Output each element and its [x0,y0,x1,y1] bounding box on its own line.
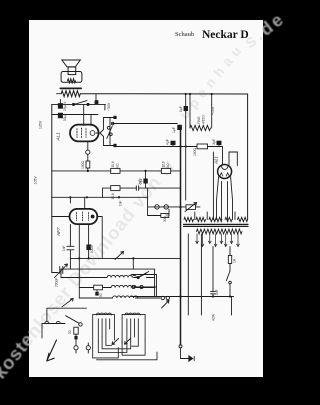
svg-text:50µ: 50µ [63,115,67,121]
wire lamp line [148,188,200,215]
wire mains drops [188,234,231,315]
wire AL1 cathode chain [87,142,89,171]
wire +HT top rail [80,93,247,95]
svg-text:150Ω: 150Ω [193,147,197,156]
transformer T1 core [184,224,249,226]
wire lamp lower line [148,209,169,215]
resistor R5 10.6k [161,168,170,173]
wire AF7 bottom leads [70,224,88,298]
wire grid line2 [52,114,98,116]
wire anode line [111,122,177,125]
wire chassis drop [181,348,189,359]
output transformer primary winding [61,91,80,97]
wire jack to lower rail [115,146,219,149]
node chassis junction [179,345,182,348]
node grid-cap terminal [86,150,90,154]
wire speaker left stub [57,93,62,95]
rheostat R7 [185,203,197,212]
tube A21 envelope [218,165,232,179]
resistor R9 50 [74,327,78,345]
wire tuning line [70,257,180,259]
antenna arrow [47,340,57,361]
switch S6 arm [66,316,83,326]
wire AF7 top leads [70,197,84,209]
resistor R2 150 series [197,144,208,149]
resistor R3 field winding FWG [190,94,212,131]
coil bank left unit L4 [93,313,115,344]
svg-text:AL1: AL1 [56,132,61,142]
capacitor C2 50uF [58,113,62,118]
capacitor C7 5nF mains [211,247,216,297]
svg-text:50: 50 [68,330,72,334]
jack J1 terminal top [113,116,116,119]
trimmer capacitor C12 200pF [52,264,68,278]
wire A21 funnel [217,177,233,220]
output transformer core [60,87,81,89]
capacitor C5 8uF right [217,141,222,147]
loudspeaker LS [61,60,82,83]
switch S4 row3 contacts [161,296,169,308]
resistor R1 cathode 150 [86,161,90,168]
svg-text:1nF: 1nF [62,245,66,251]
node rail C dot [69,170,146,199]
coil L3 row3 [79,296,160,298]
node tuning dot [132,257,134,269]
capacitor C3 1uF [177,125,182,130]
switch S3 row1 [137,274,155,279]
switch S8 bank arm2 [125,339,131,345]
transformer T1 secondary taps [197,234,238,247]
svg-text:25µ4V: 25µ4V [63,101,67,111]
svg-text:10,6: 10,6 [111,193,115,199]
svg-text:50: 50 [99,293,103,297]
lamp LP1 [155,205,159,209]
svg-text:1µF: 1µF [172,127,176,133]
node tuning joins [78,257,89,259]
resistor R6 10.6k [111,186,120,191]
wire rail C [52,196,148,198]
tube A21 anode box [229,152,237,166]
svg-text:10,6: 10,6 [111,161,115,167]
resistor R10 lamp shunt [161,214,169,218]
svg-text:4/15Ω: 4/15Ω [202,115,206,124]
svg-text:4µF: 4µF [166,139,170,145]
wire antenna down [41,324,43,339]
jack J1 terminal bottom [113,144,116,147]
svg-text:kΩ: kΩ [166,163,170,168]
wire mains rail [131,296,234,298]
wire AL1 top leads [84,104,105,125]
switch S7 bank arm [112,339,119,345]
svg-text:2nF: 2nF [138,179,142,185]
svg-text:4Ω: 4Ω [165,212,169,217]
node mains dots [179,295,231,297]
wire rail B [103,188,181,197]
wire antenna line [47,308,87,321]
node lamp bus dot [179,206,181,208]
svg-text:kΩ: kΩ [116,163,120,168]
svg-text:10,6: 10,6 [162,161,166,167]
capacitor C10 1nF plates [67,246,74,250]
capacitor C14 2nF series [136,186,138,191]
terminal T1 [74,346,78,353]
wire A21 anode lead [219,147,223,165]
capacitor C4 4uF [171,141,176,147]
node rail dots [179,93,212,148]
wire screen line [52,94,106,104]
wire AF7 grid line [52,217,102,259]
switch S2 mains [226,271,231,297]
antenna trim arrow [62,298,73,306]
svg-text:~30V: ~30V [107,102,111,111]
jack J1 bracket [96,118,104,146]
tuning capacitor arrow [115,252,124,260]
tube AF7 envelope [70,209,98,224]
wire AVC line [61,269,155,296]
svg-text:A21: A21 [214,156,219,165]
tube A21 anode cup [222,166,228,169]
coil bank right unit L5 [122,313,145,344]
transformer T1 secondary winding [197,229,243,234]
capacitor C1 25uF [58,100,62,109]
svg-text:Neckar D: Neckar D [202,29,249,41]
switch S5 [138,272,149,278]
svg-text:8µF: 8µF [179,106,183,112]
wire right bus [247,94,249,220]
jack J1 main pole [104,118,114,146]
capacitor C6 8uF on bus [184,94,188,200]
capacitor C8 2uF [143,171,147,188]
svg-text:105V: 105V [34,176,38,185]
tube AL1 electrodes [77,128,95,138]
svg-text:AF7: AF7 [56,227,61,237]
switch S1 on screen line [72,101,89,106]
transformer T1 tap arrowheads [196,241,240,246]
svg-text:200pF: 200pF [55,278,59,287]
tube AL1 envelope [70,125,99,142]
resistor R4 10.6k [111,168,120,173]
tube A21 filaments [220,173,229,176]
svg-text:105V: 105V [39,120,43,129]
svg-text:FWG: FWG [197,116,201,124]
capacitor C13 blob [95,100,99,104]
jack J1 contacts [107,126,113,139]
svg-text:150Ω: 150Ω [81,160,85,169]
wire HT bus thick [180,130,182,345]
tube AF7 electrodes [77,212,95,221]
coil bank wiring loops [93,329,157,360]
capacitor C11 100nF [86,245,90,251]
fuse F1 1A [228,247,231,272]
wire wave-switch lines [131,275,157,297]
svg-text:+10V: +10V [211,106,215,115]
resistor R8 50 blob [95,290,98,296]
coil L1 row1 [61,275,138,277]
lamp contacts pair [132,285,143,288]
svg-text:100nF: 100nF [90,244,94,253]
svg-text:1nF: 1nF [119,200,123,206]
svg-text:8µF: 8µF [212,139,216,145]
svg-text:Schaub: Schaub [175,31,194,38]
ground symbol [188,355,194,362]
wire rail A [52,170,181,172]
terminal T2 [86,343,90,353]
wire A21 left drop [212,152,214,220]
transformer T1 primary winding [184,212,248,222]
switch S6 contacts [42,321,65,323]
wire left bus [51,104,53,272]
coil L2 row2 [79,285,154,290]
svg-text:5nF: 5nF [215,289,219,295]
lamp LP2 [164,205,168,209]
svg-text:42W: 42W [212,313,216,321]
white page [29,20,263,377]
